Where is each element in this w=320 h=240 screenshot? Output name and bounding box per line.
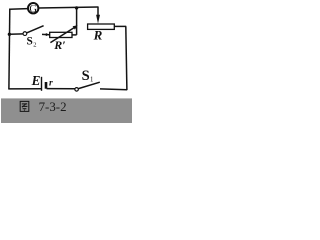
svg-text:G: G: [29, 4, 37, 15]
background: [0, 0, 134, 123]
rheostat R' box: [50, 32, 72, 37]
svg-text:S: S: [27, 36, 33, 48]
svg-text:1: 1: [90, 76, 93, 83]
battery E short plate: [45, 82, 48, 89]
switch S1 contact: [75, 88, 79, 92]
resistor R box: [88, 24, 115, 29]
caption strip: [1, 98, 132, 123]
wire: top-left horizontal to meter: [9, 8, 27, 11]
wire: riser up to top wire: [76, 8, 78, 35]
wire: bottom horizontal right of S1: [100, 88, 127, 91]
small arrow blob before box: [46, 33, 50, 36]
svg-text:R: R: [93, 28, 103, 43]
wire: blade tip to rheostat R': [42, 33, 50, 35]
wire: left vertical side: [8, 9, 11, 90]
switch S1 blade: [78, 82, 99, 88]
caption glyph 图 (drawn): [20, 101, 29, 111]
wire: right vertical side: [126, 26, 127, 90]
svg-text:E: E: [31, 73, 41, 88]
rheostat R' diagonal arrow: [50, 27, 74, 42]
wire: slider drop from top wire: [97, 7, 99, 16]
switch S2 contact: [23, 32, 27, 36]
wire: junction to S2 contact: [9, 33, 23, 35]
switch S2 blade: [27, 26, 44, 33]
junction node at top wire: [75, 6, 78, 9]
svg-text:r: r: [49, 77, 53, 88]
svg-text:R′: R′: [53, 38, 65, 52]
svg-text:2: 2: [33, 42, 36, 49]
battery E long plate: [41, 77, 43, 91]
svg-text:7-3-2: 7-3-2: [39, 100, 67, 114]
wire: bottom horizontal battery to S1: [47, 88, 76, 90]
galvanometer G: [28, 3, 38, 13]
wire: bottom horizontal left of battery: [8, 88, 42, 90]
svg-text:S: S: [82, 68, 90, 84]
wire: resistor R right lead: [114, 25, 126, 27]
wire: top horizontal from meter to right corner: [39, 7, 99, 8]
slider arrow onto R: [96, 15, 100, 24]
junction node at left wire: [8, 33, 11, 36]
wire: R' box to riser: [72, 34, 77, 36]
